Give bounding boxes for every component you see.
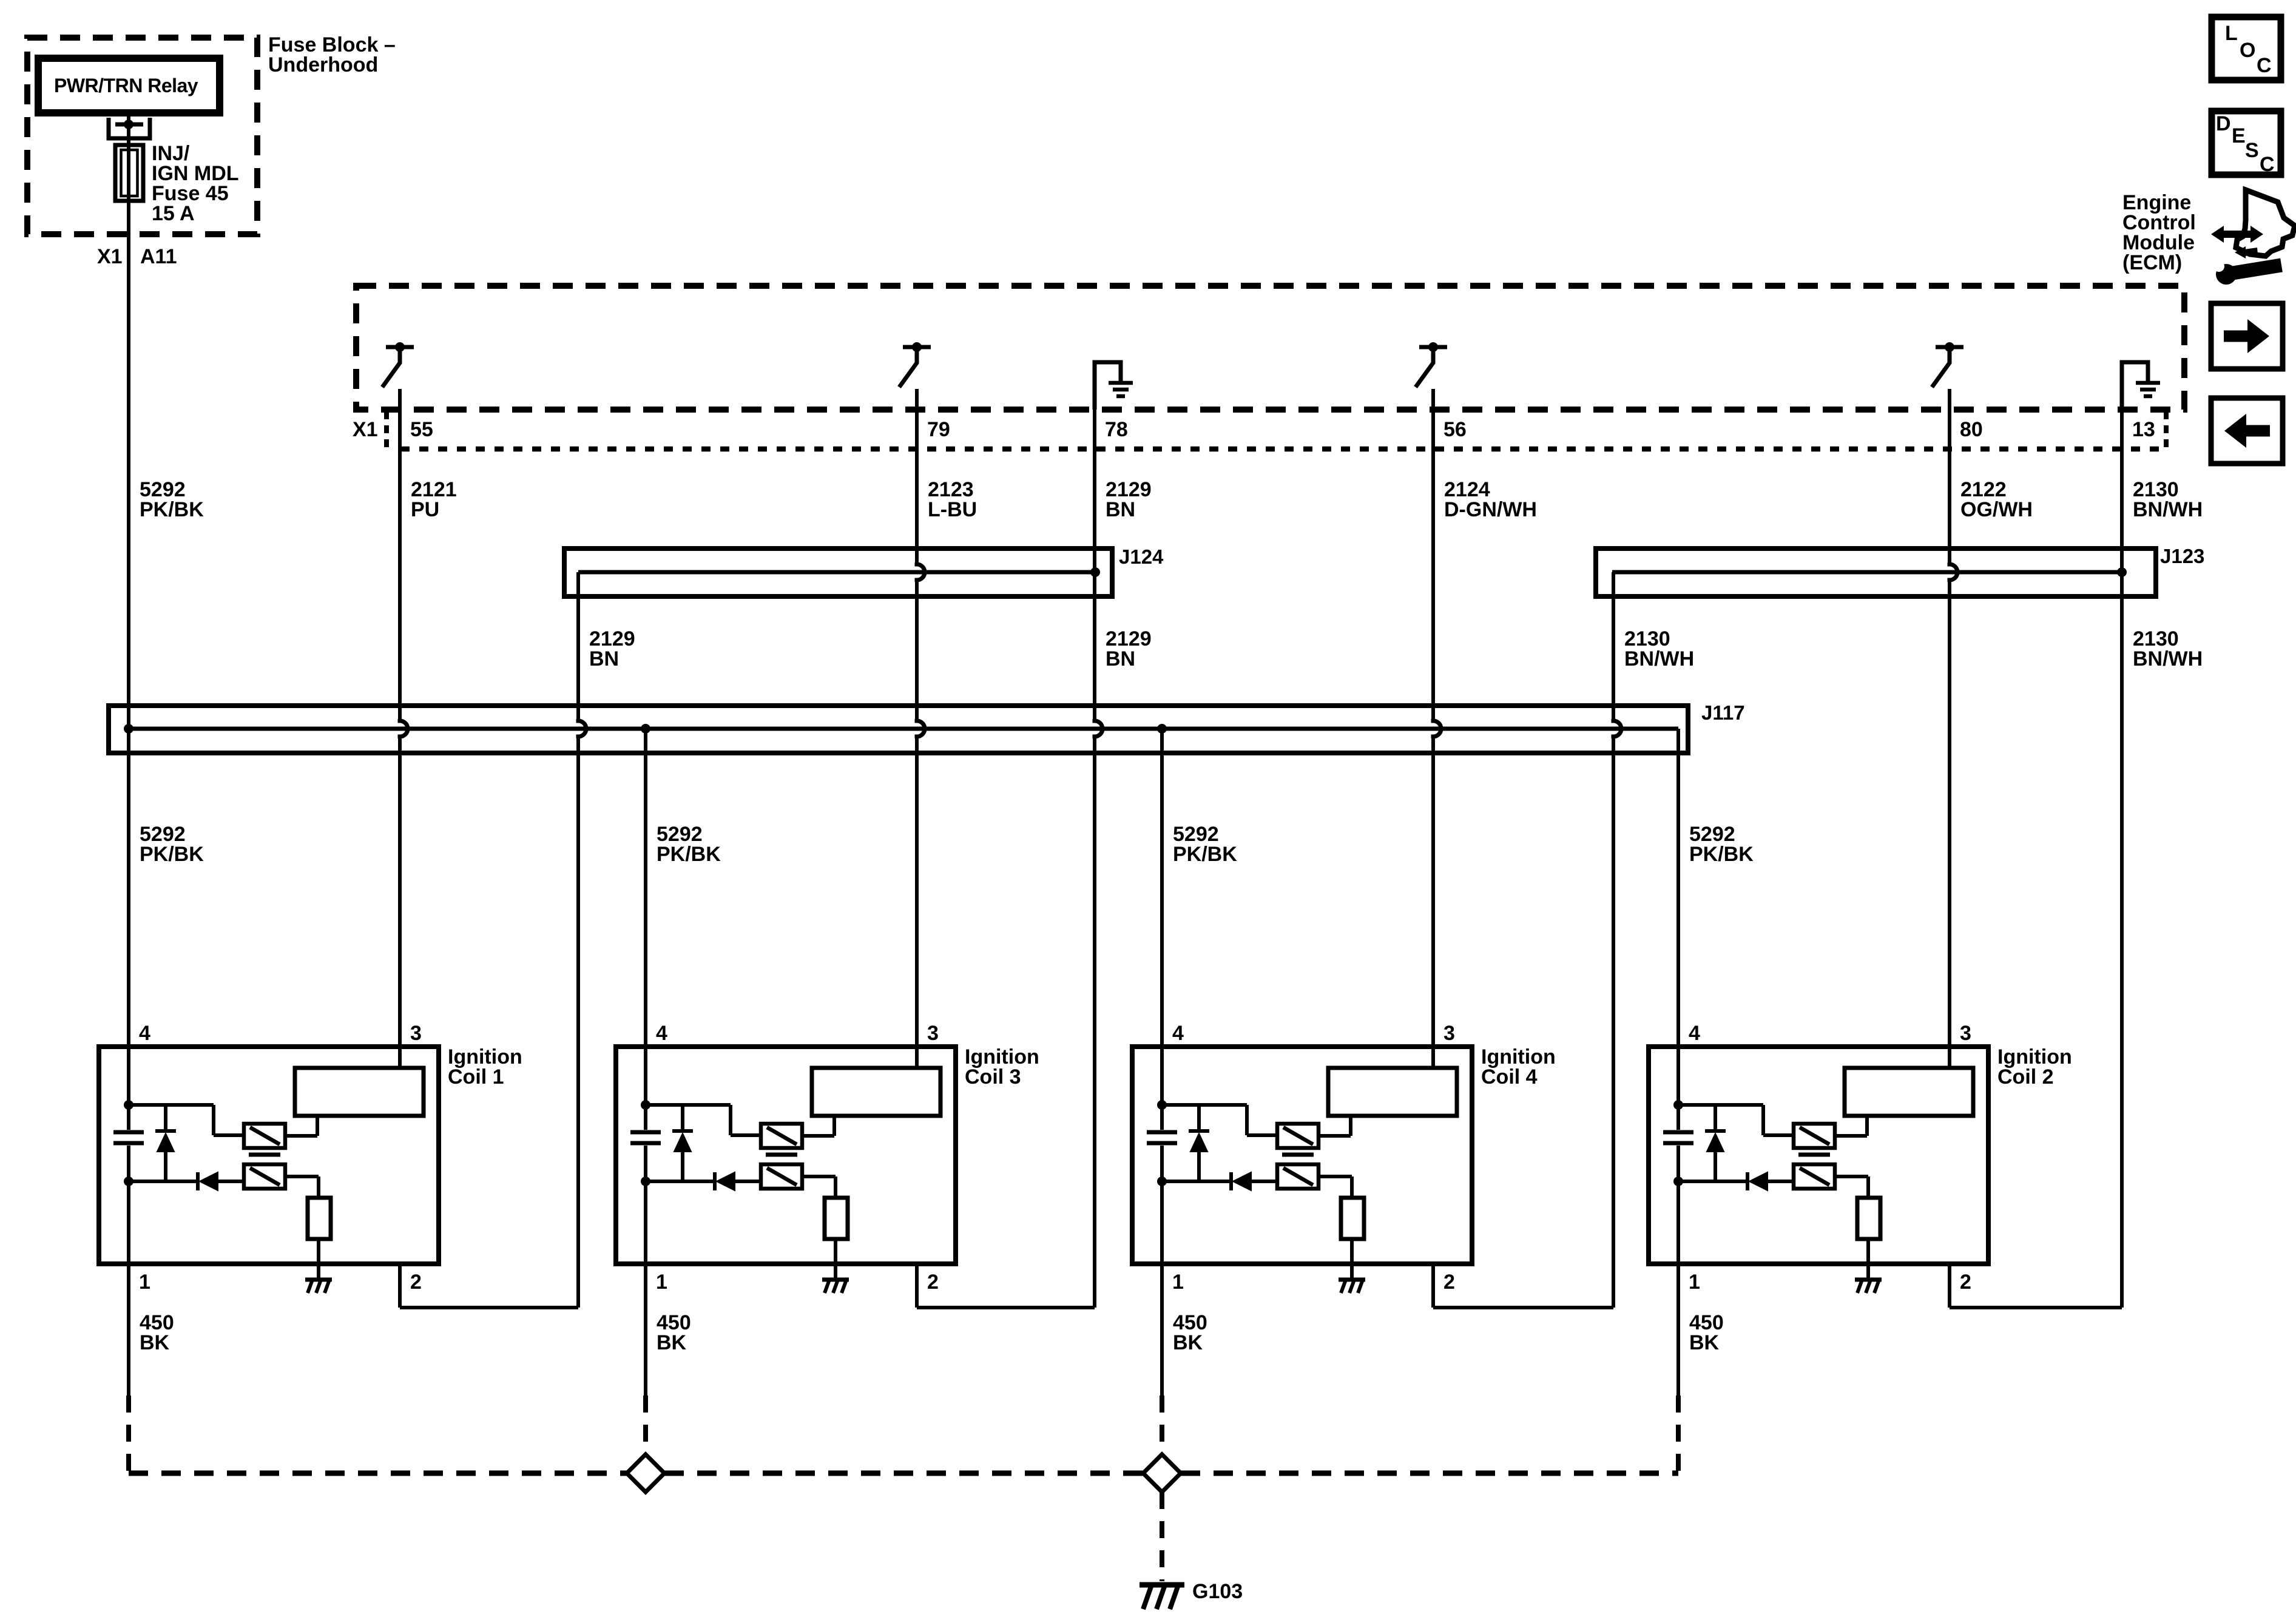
- svg-text:Coil 3: Coil 3: [965, 1065, 1021, 1089]
- svg-text:J117: J117: [1701, 701, 1745, 724]
- svg-text:Underhood: Underhood: [268, 53, 378, 76]
- svg-text:PK/BK: PK/BK: [140, 843, 204, 866]
- svg-text:BN/WH: BN/WH: [2133, 498, 2203, 521]
- svg-text:BN: BN: [1106, 498, 1135, 521]
- svg-text:X1: X1: [353, 418, 378, 441]
- svg-text:BN: BN: [589, 647, 619, 670]
- svg-text:Coil 2: Coil 2: [1997, 1065, 2054, 1089]
- svg-text:PU: PU: [411, 498, 439, 521]
- svg-text:55: 55: [410, 418, 433, 441]
- svg-text:BN/WH: BN/WH: [1624, 647, 1694, 670]
- svg-text:J124: J124: [1119, 545, 1164, 568]
- svg-text:PK/BK: PK/BK: [657, 843, 721, 866]
- svg-text:O: O: [2240, 39, 2255, 62]
- svg-text:PK/BK: PK/BK: [1689, 843, 1754, 866]
- svg-text:E: E: [2232, 124, 2246, 147]
- svg-text:56: 56: [1443, 418, 1467, 441]
- svg-text:(ECM): (ECM): [2122, 251, 2182, 274]
- svg-text:L-BU: L-BU: [928, 498, 977, 521]
- svg-text:15 A: 15 A: [152, 202, 195, 225]
- svg-text:OG/WH: OG/WH: [1960, 498, 2033, 521]
- svg-text:BN: BN: [1106, 647, 1135, 670]
- svg-text:G103: G103: [1192, 1580, 1243, 1603]
- svg-text:PK/BK: PK/BK: [1173, 843, 1237, 866]
- svg-text:Coil 1: Coil 1: [448, 1065, 504, 1089]
- svg-text:Coil 4: Coil 4: [1481, 1065, 1538, 1089]
- svg-text:13: 13: [2132, 418, 2155, 441]
- svg-text:X1: X1: [97, 245, 123, 268]
- svg-text:D: D: [2216, 112, 2231, 135]
- svg-text:C: C: [2257, 54, 2272, 77]
- svg-text:S: S: [2245, 139, 2259, 162]
- svg-text:C: C: [2260, 153, 2275, 176]
- svg-text:L: L: [2225, 22, 2238, 45]
- svg-text:80: 80: [1960, 418, 1983, 441]
- svg-text:PWR/TRN Relay: PWR/TRN Relay: [54, 75, 198, 96]
- svg-text:A11: A11: [140, 245, 177, 268]
- svg-text:78: 78: [1105, 418, 1128, 441]
- svg-text:J123: J123: [2160, 545, 2204, 567]
- svg-text:D-GN/WH: D-GN/WH: [1444, 498, 1537, 521]
- svg-text:BN/WH: BN/WH: [2133, 647, 2203, 670]
- svg-text:PK/BK: PK/BK: [140, 498, 204, 521]
- svg-text:79: 79: [927, 418, 950, 441]
